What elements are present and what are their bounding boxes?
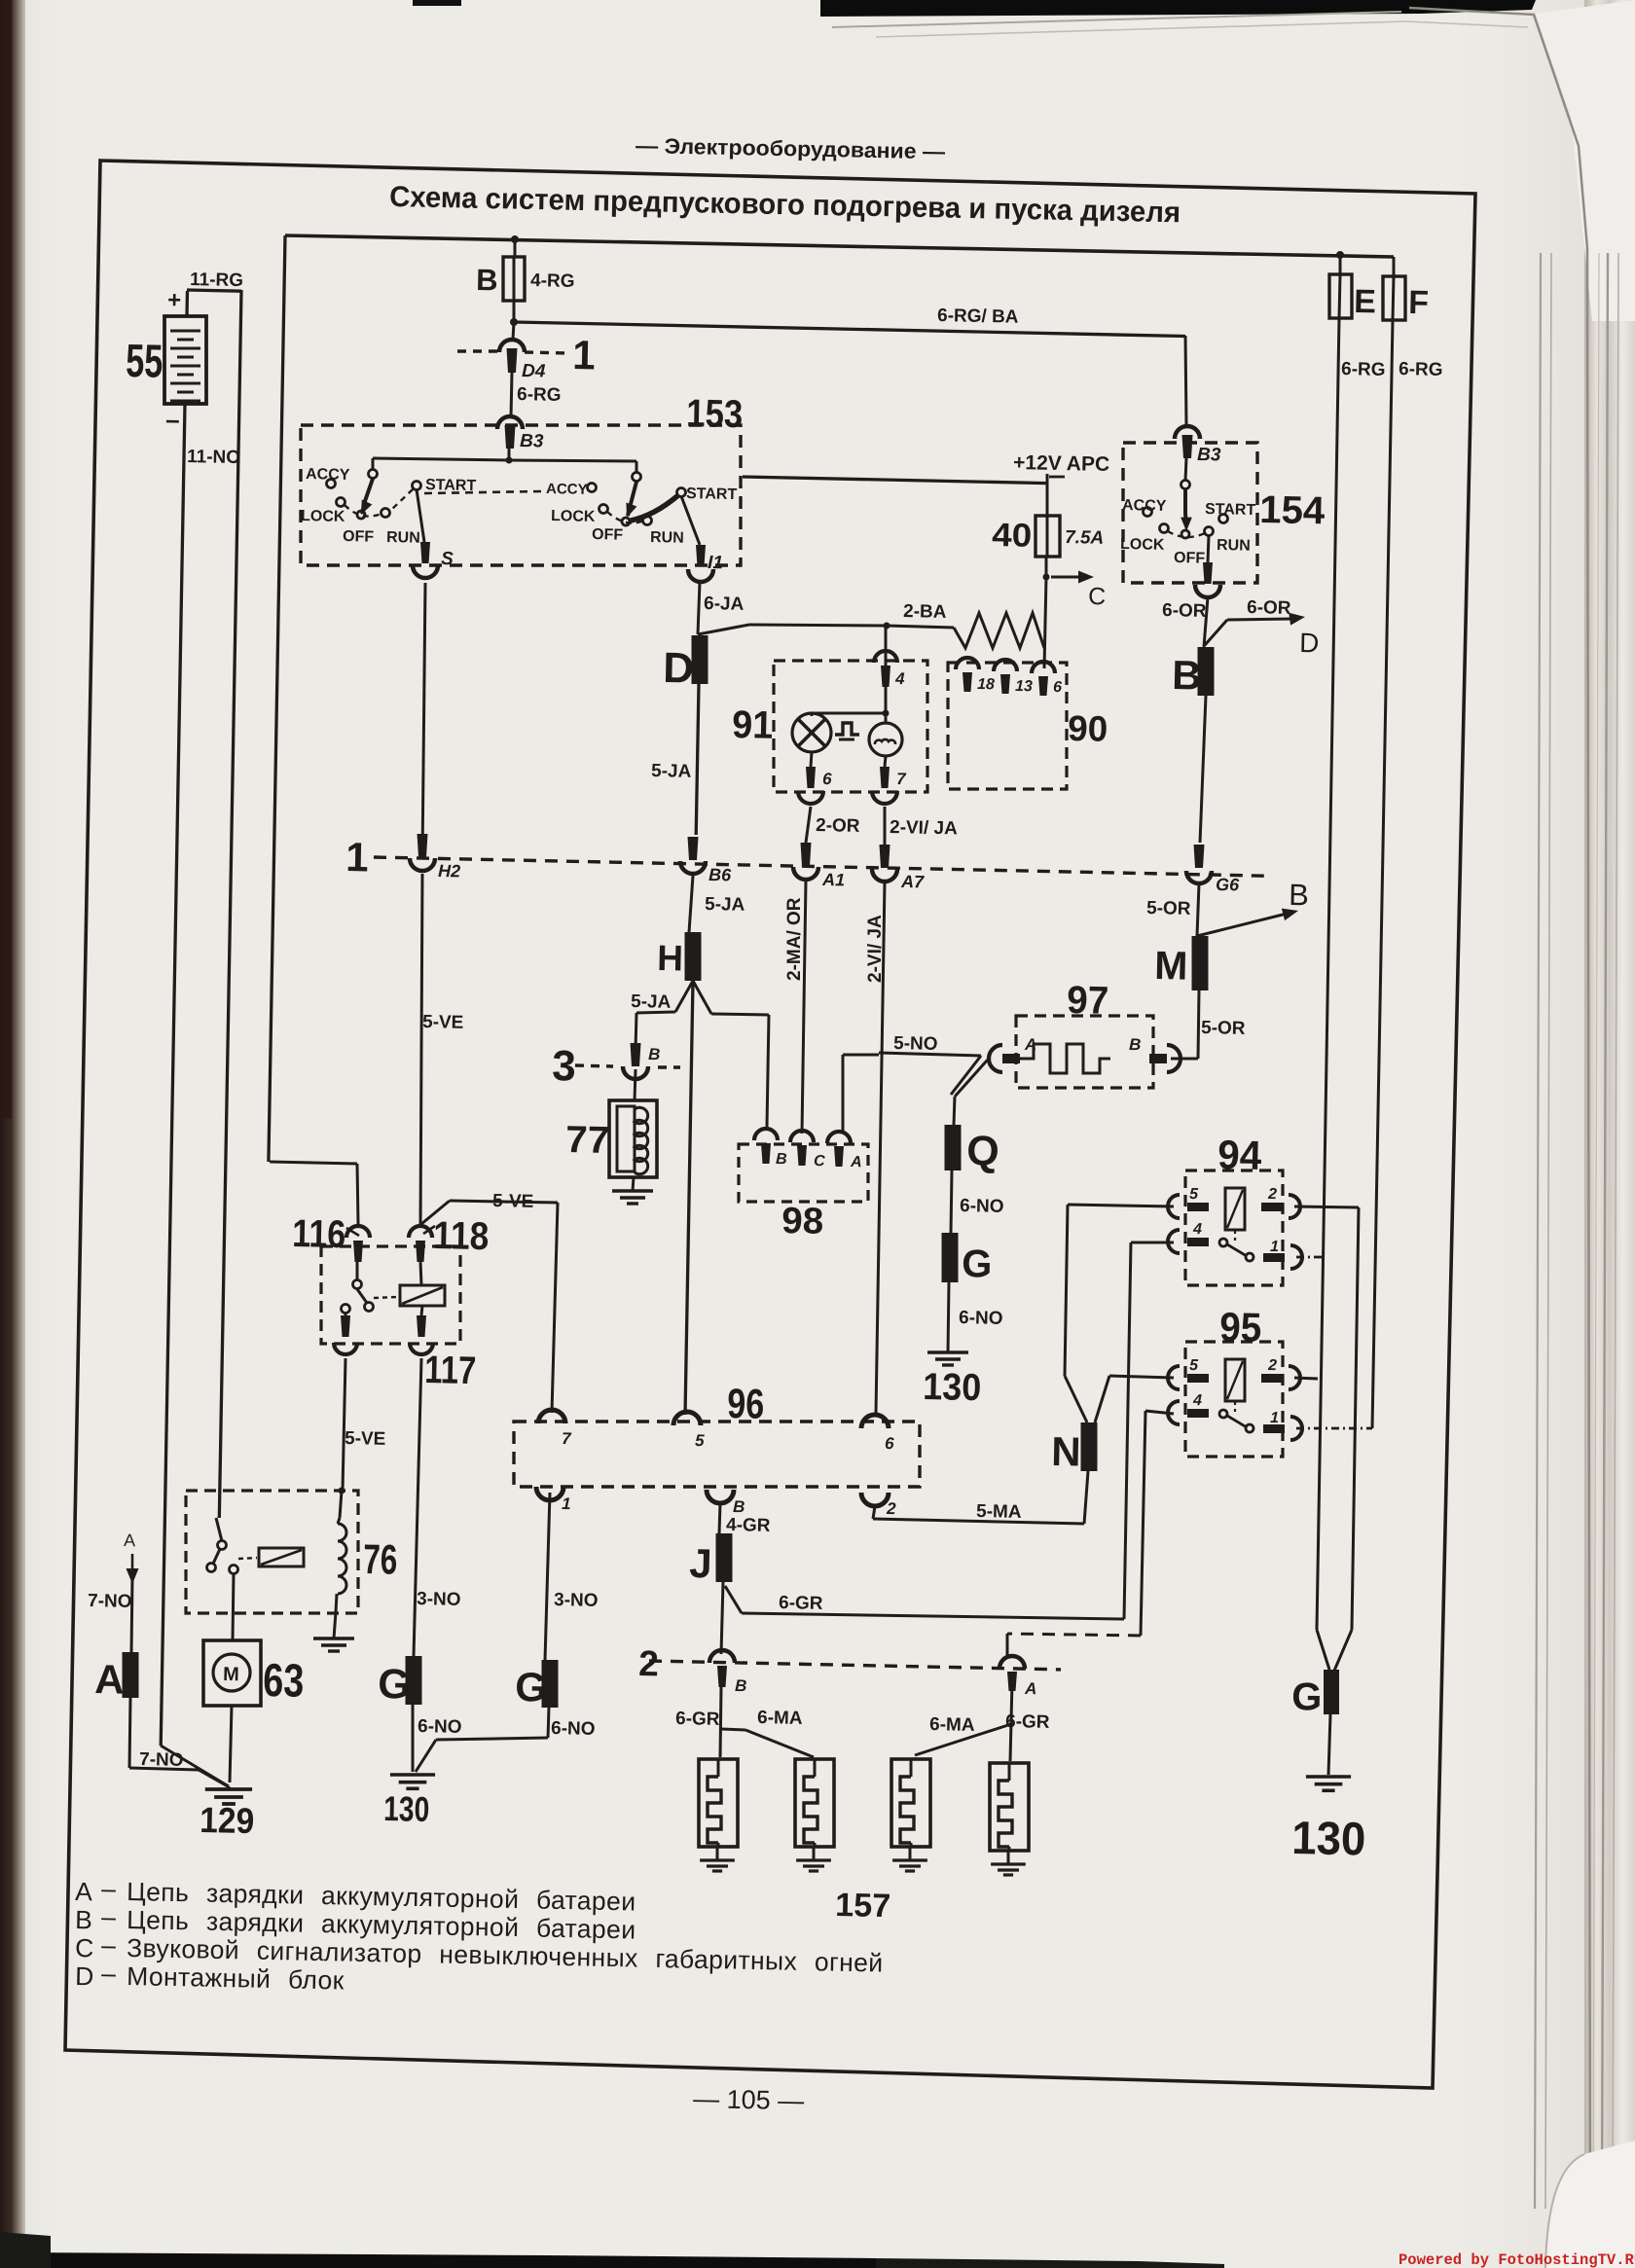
label 6-RG/BA <box>937 306 1019 328</box>
wire 97-A to Q <box>954 1059 989 1125</box>
svg-text:130: 130 <box>383 1788 430 1829</box>
svg-text:76: 76 <box>363 1536 398 1584</box>
svg-text:ACCY: ACCY <box>1122 497 1167 515</box>
connector 7 (96) <box>538 1410 565 1423</box>
svg-text:–: – <box>101 1874 117 1903</box>
svg-text:5: 5 <box>1189 1357 1199 1374</box>
wire 6-NO to ground 130 left <box>412 1705 415 1772</box>
bus 3 dashed line <box>575 1065 680 1067</box>
label fuse B <box>476 263 498 297</box>
label 6-GR (J) <box>779 1593 823 1614</box>
relay 76 winding <box>338 1518 346 1594</box>
label pin B (bus 2) <box>735 1676 747 1695</box>
terminal G (bottom right) <box>1324 1670 1339 1714</box>
svg-text:130: 130 <box>923 1366 982 1409</box>
svg-text:–: – <box>101 1902 117 1931</box>
label OFF (153 left) <box>343 528 375 546</box>
svg-text:7-NO: 7-NO <box>88 1591 132 1612</box>
label 5-JA (mid) <box>705 894 745 916</box>
battery minus sign <box>165 405 180 434</box>
svg-text:B: B <box>1289 878 1309 912</box>
wire START to I1 pin <box>681 496 700 545</box>
label 6-NO (96-1) <box>551 1718 596 1740</box>
label START (153 right) <box>686 486 738 503</box>
label pin A (98) <box>850 1154 862 1170</box>
connector B3 (153) <box>497 416 523 449</box>
svg-text:–: – <box>165 405 180 434</box>
wire N to 5-MA <box>1084 1471 1088 1524</box>
svg-text:96: 96 <box>727 1381 765 1428</box>
svg-text:B: B <box>648 1045 661 1063</box>
svg-text:6-JA: 6-JA <box>704 594 745 615</box>
wire 6-JA <box>698 582 700 634</box>
svg-text:130: 130 <box>1291 1813 1366 1866</box>
terminal N <box>1081 1422 1098 1471</box>
ground 130 (left) <box>390 1775 435 1788</box>
svg-text:B3: B3 <box>1197 445 1221 465</box>
label pin 4 (94) <box>1192 1221 1202 1238</box>
label 11-RG <box>190 270 243 291</box>
svg-text:LOCK: LOCK <box>551 508 596 525</box>
terminal G (96-1 chain) <box>542 1660 559 1708</box>
wire 5-JA D to B6 <box>696 684 699 835</box>
label terminal Q <box>966 1128 999 1175</box>
label pin 13 (90) <box>1015 678 1033 695</box>
label 6-GR (plug4) <box>1005 1711 1050 1733</box>
label bulkhead 1 (top) <box>572 332 596 378</box>
svg-text:40: 40 <box>992 517 1033 555</box>
svg-text:5: 5 <box>1189 1186 1199 1203</box>
wire 6-GR J branch <box>725 1586 1124 1619</box>
svg-text:3-NO: 3-NO <box>417 1589 461 1610</box>
svg-text:A: A <box>124 1530 135 1550</box>
svg-text:START: START <box>686 486 738 503</box>
arrow A head <box>124 1530 139 1584</box>
component box 154 outline <box>1123 443 1257 583</box>
svg-text:91: 91 <box>732 703 774 747</box>
label 118 <box>433 1214 490 1258</box>
wire A to ground 129 <box>129 1698 228 1786</box>
label RUN (153 left) <box>386 529 420 547</box>
svg-text:2-BA: 2-BA <box>903 601 947 623</box>
label 154 <box>1259 488 1326 532</box>
connector 118 pin <box>409 1226 432 1262</box>
label pin D4 <box>522 361 546 381</box>
connector A (97) <box>989 1045 1020 1072</box>
glow relay coil 77 <box>609 1100 657 1177</box>
wire 116 lower pin to 76 <box>339 1358 346 1518</box>
ignition switch 153 right wafer <box>588 473 686 526</box>
svg-text:5-VE: 5-VE <box>492 1191 534 1212</box>
connector A7 on bus 1 <box>872 845 897 882</box>
resistor meander 97 <box>1020 1044 1110 1073</box>
wire 6-GR to plug 1 <box>720 1687 721 1757</box>
ground 130 (mid) <box>927 1352 968 1365</box>
terminal A <box>123 1652 139 1698</box>
svg-text:7-NO: 7-NO <box>139 1749 184 1771</box>
svg-text:–: – <box>101 1930 117 1960</box>
connector 1 (96) <box>536 1487 563 1500</box>
label 153 <box>686 392 744 436</box>
svg-text:START: START <box>1205 501 1256 519</box>
svg-text:B: B <box>1172 652 1202 699</box>
label pin B3 (153) <box>520 431 544 451</box>
svg-text:A: A <box>94 1656 125 1703</box>
connector pin 7 (91) <box>872 767 897 804</box>
wire H mid branch to 96-5 <box>685 981 693 1415</box>
wire fuse B bottom <box>513 301 516 322</box>
connector pin 18 (90) <box>956 658 979 692</box>
wire 11-NO battery negative <box>161 404 229 1786</box>
label fuse F <box>1408 284 1430 321</box>
svg-text:5-JA: 5-JA <box>651 761 692 782</box>
svg-text:M: M <box>223 1664 239 1685</box>
svg-text:116: 116 <box>292 1212 346 1256</box>
label fuse E <box>1354 283 1376 320</box>
label LOCK (153 right) <box>551 508 596 525</box>
ground below 76 <box>313 1638 354 1651</box>
fuse F <box>1383 276 1405 320</box>
svg-text:94: 94 <box>1217 1132 1263 1178</box>
wire J to bus 2 <box>721 1582 723 1654</box>
svg-text:B: B <box>735 1676 747 1695</box>
svg-text:4-GR: 4-GR <box>726 1515 771 1536</box>
svg-text:63: 63 <box>263 1655 305 1708</box>
svg-text:F: F <box>1408 284 1430 321</box>
component box 98 outline <box>739 1144 868 1202</box>
connector pin 6 (91) <box>798 767 823 804</box>
label 90 <box>1068 708 1108 749</box>
label terminal G (mid) <box>962 1242 993 1286</box>
relay 76 contact & coil <box>207 1541 305 1574</box>
label 2-MA/OR vertical <box>784 897 805 981</box>
connector S <box>413 542 438 578</box>
svg-text:B: B <box>776 1151 787 1168</box>
label 6-OR (right) <box>1247 597 1291 619</box>
svg-text:D4: D4 <box>522 361 546 381</box>
label pin B (97) <box>1129 1035 1142 1054</box>
arrow C <box>1051 571 1107 611</box>
svg-text:G: G <box>962 1242 993 1286</box>
label pin 1 (95) <box>1270 1410 1279 1426</box>
wire 5-MA <box>873 1506 1084 1524</box>
label 2-VI/JA vertical <box>865 915 886 983</box>
arrow B <box>1197 878 1309 936</box>
wire B to coil 77 <box>635 1069 636 1100</box>
label pin A1 <box>821 870 845 889</box>
label bulkhead 2 <box>638 1643 659 1683</box>
connector B (97) <box>1149 1045 1181 1072</box>
wire 6-RG/BA <box>514 322 1186 425</box>
wire 2-OR A1 chain <box>802 807 811 1134</box>
connector B (98) <box>754 1129 778 1164</box>
wire 4-GR 96B to J <box>719 1503 720 1533</box>
label RUN (154) <box>1217 537 1251 555</box>
svg-text:M: M <box>1154 943 1188 989</box>
harness squiggle to 90 <box>954 613 1044 648</box>
connector 116 lower pin <box>334 1315 357 1354</box>
label START (154) <box>1205 501 1256 519</box>
wire fuse E chain <box>1317 255 1340 1670</box>
wire 116 contact links <box>345 1262 357 1315</box>
label 91 <box>732 703 774 747</box>
wire 3-NO (96-1) <box>545 1493 550 1660</box>
pointer 118 <box>423 1226 435 1234</box>
label 6-RG <box>517 384 562 406</box>
label 5-OR (upper) <box>1146 898 1191 919</box>
label 157 <box>835 1887 891 1925</box>
label 5-VE (lower) <box>345 1428 386 1450</box>
svg-text:2: 2 <box>1267 1186 1277 1203</box>
ground 129 <box>205 1786 252 1804</box>
svg-text:C: C <box>814 1153 825 1170</box>
label OFF (153 right) <box>592 526 624 544</box>
svg-text:D: D <box>75 1962 94 1991</box>
connector pin 6 (90) <box>1032 662 1055 696</box>
svg-text:6: 6 <box>885 1434 894 1453</box>
svg-text:N: N <box>1051 1428 1081 1475</box>
label pin 5 (96) <box>695 1431 705 1450</box>
ignition switch 154 wafer <box>1144 458 1228 538</box>
wire 94-5 to N <box>1065 1205 1174 1422</box>
svg-text:5-VE: 5-VE <box>422 1012 464 1033</box>
label 96 <box>727 1381 765 1428</box>
svg-text:6-OR: 6-OR <box>1247 597 1291 619</box>
fuse B <box>503 257 525 301</box>
svg-text:D: D <box>663 644 695 693</box>
wire 6-OR down <box>1204 597 1208 647</box>
glow plug 4 (157) <box>990 1763 1029 1875</box>
svg-text:5-JA: 5-JA <box>631 991 672 1013</box>
svg-text:6-NO: 6-NO <box>959 1308 1003 1329</box>
bus 2 dashed line <box>649 1661 1061 1670</box>
svg-text:LOCK: LOCK <box>301 508 345 525</box>
svg-text:157: 157 <box>835 1887 891 1925</box>
svg-text:5-OR: 5-OR <box>1201 1018 1246 1039</box>
svg-text:6-GR: 6-GR <box>675 1709 720 1730</box>
label 5-JA (upper) <box>651 761 692 782</box>
svg-text:J: J <box>689 1540 712 1586</box>
wire 2-BA <box>749 623 954 630</box>
label 5-MA <box>976 1501 1022 1523</box>
label 94 <box>1217 1132 1263 1178</box>
label pin 18 (90) <box>977 676 995 693</box>
svg-text:1: 1 <box>572 332 596 378</box>
battery plus sign <box>167 287 182 313</box>
connector 2 (96) <box>861 1493 889 1506</box>
svg-text:2-VI/ JA: 2-VI/ JA <box>865 915 886 983</box>
svg-text:+: + <box>167 287 182 313</box>
label pin 2 (96) <box>886 1499 896 1518</box>
wire bus2 A down <box>1010 1681 1012 1761</box>
svg-text:5-NO: 5-NO <box>893 1033 938 1055</box>
label ACCY (153 left) <box>306 466 350 484</box>
svg-text:117: 117 <box>424 1349 477 1392</box>
ground 130 (right) <box>1306 1777 1351 1790</box>
ground below 77 <box>612 1191 653 1204</box>
wire START to S pin <box>417 489 424 542</box>
connector 154 bottom pin <box>1195 562 1220 597</box>
component box 153 outline <box>301 425 741 565</box>
label 11-NO <box>187 447 240 468</box>
label 63 <box>263 1655 305 1708</box>
wire 118 coil link <box>420 1262 422 1315</box>
wire G6 down <box>1197 883 1199 936</box>
label 95 <box>1219 1304 1262 1350</box>
svg-text:A: A <box>850 1154 862 1170</box>
relay 95 <box>1168 1342 1302 1457</box>
wire 95-4 to bus2-A <box>1007 1411 1174 1656</box>
label 6-MA (plug2) <box>757 1708 803 1729</box>
svg-text:4: 4 <box>1192 1221 1202 1238</box>
label 116 <box>292 1212 346 1256</box>
glow plug 3 (157) <box>891 1759 930 1871</box>
svg-text:4-RG: 4-RG <box>530 270 575 292</box>
label 2-VI/JA (upper) <box>890 817 958 839</box>
wire fuse 40 down <box>1043 557 1050 668</box>
terminal H <box>685 932 702 981</box>
label 3-NO (96-1) <box>554 1590 599 1611</box>
svg-text:ACCY: ACCY <box>306 466 350 484</box>
svg-text:–: – <box>101 1959 117 1988</box>
svg-text:7.5A: 7.5A <box>1065 527 1105 549</box>
svg-text:I1: I1 <box>708 553 723 573</box>
label pin S <box>441 549 454 569</box>
svg-text:6-OR: 6-OR <box>1162 600 1207 622</box>
svg-text:S: S <box>441 549 454 569</box>
svg-text:6-RG: 6-RG <box>1399 359 1443 380</box>
connector B on bus 3 <box>623 1043 648 1079</box>
wire H right branch to 98-B <box>693 981 769 1127</box>
label 2-OR <box>816 815 860 837</box>
svg-text:3: 3 <box>552 1042 576 1090</box>
svg-text:С: С <box>75 1933 94 1962</box>
label terminal A <box>94 1656 125 1703</box>
junction dot rail / fuse B <box>511 235 519 243</box>
connector pin 13 (90) <box>994 660 1017 694</box>
wire A down <box>131 1576 132 1652</box>
svg-text:A1: A1 <box>821 870 845 889</box>
svg-text:2-VI/ JA: 2-VI/ JA <box>890 817 958 839</box>
svg-text:ACCY: ACCY <box>546 481 588 498</box>
connector pin 4 (91) <box>874 651 897 687</box>
svg-text:В: В <box>75 1905 92 1934</box>
wire 77 to ground <box>633 1177 634 1191</box>
svg-text:H: H <box>657 938 684 979</box>
wire 5-VE branch to 96-7 <box>421 1201 558 1413</box>
wire Q to G <box>951 1170 952 1233</box>
svg-text:Монтажный блок: Монтажный блок <box>127 1962 345 1995</box>
wire fuse B top <box>514 239 517 257</box>
wire motor to ground 129 <box>230 1706 232 1782</box>
wire pin4 to lamp/coil <box>812 628 890 722</box>
label 7-NO (upper) <box>88 1591 132 1612</box>
label 117 <box>424 1349 477 1392</box>
label terminal D <box>663 644 695 693</box>
connector A (98) <box>827 1132 851 1167</box>
label 4-RG <box>530 270 575 292</box>
label pin I1 <box>708 553 723 573</box>
terminal J <box>716 1533 733 1582</box>
wire M down to 97-B <box>1171 990 1199 1059</box>
wire branch to 2-BA <box>698 625 749 634</box>
wire 5-NO <box>879 1053 981 1095</box>
wire 94-2 to G <box>1294 1206 1359 1671</box>
svg-text:13: 13 <box>1015 678 1033 695</box>
svg-text:18: 18 <box>977 676 995 693</box>
wire rail left leg to relay 116 <box>269 235 358 1224</box>
label pin B (96) <box>733 1497 745 1516</box>
svg-text:77: 77 <box>565 1119 610 1162</box>
svg-text:+12V APC: +12V APC <box>1013 451 1109 476</box>
svg-text:5-OR: 5-OR <box>1146 898 1191 919</box>
mech link dashed 153 <box>424 491 541 493</box>
svg-text:6-RG/ BA: 6-RG/ BA <box>937 306 1019 328</box>
label 6-MA (plug3) <box>929 1714 975 1736</box>
svg-text:5-VE: 5-VE <box>345 1428 386 1450</box>
svg-text:2-MA/ OR: 2-MA/ OR <box>784 897 805 981</box>
svg-text:LOCK: LOCK <box>1120 536 1165 554</box>
label 130 (left) <box>383 1788 430 1829</box>
svg-text:B: B <box>476 263 498 297</box>
wire H left branch to bus 3 <box>636 981 693 1049</box>
wire G to ground 130 mid <box>948 1282 949 1352</box>
diagram title <box>389 181 1181 229</box>
label RUN (153 right) <box>650 529 684 547</box>
label terminal G (96-1) <box>515 1664 548 1710</box>
fuse E <box>1329 274 1352 318</box>
motor 63 box <box>203 1640 261 1706</box>
connector 6 (96) <box>861 1415 889 1428</box>
label terminal G (117) <box>378 1661 411 1709</box>
label pin 4 (95) <box>1192 1392 1202 1409</box>
label 6-RG (F) <box>1399 359 1443 380</box>
label pin C (98) <box>814 1153 825 1170</box>
svg-text:— 105 —: — 105 — <box>693 2084 805 2115</box>
component box 91 outline <box>774 661 927 792</box>
svg-text:H2: H2 <box>438 861 460 881</box>
junction dot rail / fuse E <box>1336 251 1344 259</box>
warning lamp (91) <box>792 713 831 752</box>
svg-text:153: 153 <box>686 392 744 436</box>
svg-text:1: 1 <box>345 834 369 880</box>
label 2-BA <box>903 601 947 623</box>
label 129 <box>200 1800 255 1841</box>
label pin B (98) <box>776 1151 787 1168</box>
svg-text:G: G <box>515 1664 548 1710</box>
label 6-JA <box>704 594 745 615</box>
component box 76 outline <box>186 1491 358 1613</box>
label 5-VE (branch) <box>492 1191 534 1212</box>
relay 94 <box>1168 1170 1302 1285</box>
connector 5 (96) <box>673 1412 701 1425</box>
wire lamp to pin 6 <box>811 752 812 767</box>
label terminal J <box>689 1540 712 1586</box>
wire 6-MA to plug 3 <box>915 1724 1011 1755</box>
wire 76 to motor 63 <box>233 1573 234 1640</box>
label 4-GR <box>726 1515 771 1536</box>
svg-text:B3: B3 <box>520 431 544 451</box>
label pin A (97) <box>1024 1035 1037 1054</box>
svg-text:A: A <box>1024 1679 1037 1698</box>
connector B (96) <box>707 1490 734 1503</box>
label 6-GR (plug1) <box>675 1709 720 1730</box>
svg-text:6-RG: 6-RG <box>1341 359 1386 380</box>
svg-text:B: B <box>733 1497 745 1516</box>
wire 2-VI/JA A7 chain <box>876 807 885 1414</box>
connector B6 on bus 1 <box>680 837 706 874</box>
svg-text:129: 129 <box>200 1800 255 1841</box>
